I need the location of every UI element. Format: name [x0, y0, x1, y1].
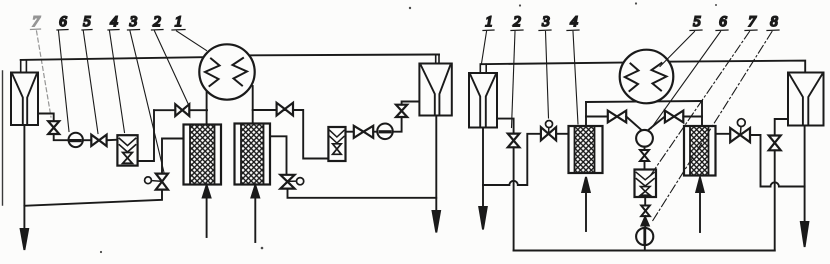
control valve CV4 (horizontal bowtie with pilot circle) — [730, 119, 750, 143]
wire top supply pipe (right of circle U2 to chamber B4) — [663, 61, 805, 73]
expansion valve box A2 — [328, 127, 345, 161]
svg-text:7: 7 — [32, 14, 41, 30]
wire lower header left segment — [586, 116, 608, 118]
valve V11 (vertical bowtie) — [640, 150, 649, 161]
wire CV1 drain return to chamber B1 drain — [24, 190, 162, 206]
label 7 (left diagram) with leader — [31, 14, 52, 117]
wire valve V4 to pump P2 — [373, 131, 377, 133]
svg-text:1: 1 — [485, 14, 493, 30]
label 7 (right diagram) with leader — [650, 14, 757, 176]
svg-text:4: 4 — [110, 14, 118, 30]
air washer chamber B1 (left funnel box) — [11, 60, 38, 125]
wire valve V2 to expansion box A1 — [107, 139, 118, 142]
heat exchanger W1 (hatched) — [184, 125, 222, 185]
wire valve V3 pipe to circle U1 left downpipe — [154, 109, 207, 111]
label 5 (left diagram) with leader — [82, 14, 98, 134]
svg-text:4: 4 — [570, 14, 578, 30]
valve V10 (horizontal bowtie, right of distributor) — [665, 111, 683, 123]
wire chamber B4 to valve V8 — [775, 119, 788, 136]
pump P2 (circle with bar) — [377, 124, 393, 140]
label 1 (right diagram) with leader — [482, 14, 495, 64]
svg-text:6: 6 — [719, 14, 727, 30]
heat exchanger W2 (hatched) — [235, 124, 271, 185]
valve V9 (horizontal bowtie, left of distributor) — [608, 111, 626, 123]
wire valve V12 to flow meter F1 — [644, 216, 646, 227]
svg-text:5: 5 — [83, 14, 91, 30]
valve V3 (horizontal bowtie) — [175, 104, 189, 116]
control valve CV2 (vertical bowtie with pilot circle) — [280, 175, 303, 189]
pump P1 (circle with bar) — [69, 133, 83, 147]
label 4 (left diagram) with leader — [108, 14, 125, 133]
heat exchanger W4 (hatched) — [684, 126, 716, 176]
duct edge line (far left) — [2, 71, 4, 205]
svg-text:3: 3 — [541, 14, 550, 30]
valve V1 (vertical bowtie) — [48, 121, 59, 134]
valve V8 (vertical bowtie) — [769, 136, 781, 151]
wire circle U1 left downpipe to heat exchanger W1 — [206, 91, 208, 125]
wire valve V8 riser to bottom pipe — [774, 150, 776, 250]
label 3 (left diagram) with leader — [128, 14, 165, 173]
label 2 (right diagram) with leader — [511, 14, 523, 128]
wire top supply pipe (left of circle U2) — [481, 62, 631, 64]
wire top supply pipe (left of heat-exchanger circle U1) — [21, 57, 210, 60]
valve V6 (vertical bowtie) — [396, 105, 407, 117]
wire lower header right segment — [683, 116, 702, 118]
wire valve V7 riser to recirculation bottom pipe — [513, 147, 515, 250]
valve V5 (horizontal bowtie) — [277, 103, 293, 116]
label 1 (left diagram) with leader — [172, 14, 207, 51]
air flow arrow into W1 — [203, 185, 211, 237]
wire box A1 outlet riser to valve V3 — [138, 110, 154, 161]
wire valve V5 pipe from right downpipe to box A2 — [253, 110, 329, 159]
label 6 (right diagram) with leader — [651, 14, 728, 129]
svg-text:2: 2 — [513, 14, 521, 30]
air flow arrow into W4 — [696, 178, 704, 233]
heat-exchanger circle U1 with zigzag coils — [199, 44, 254, 99]
control valve CV3 (horizontal bowtie with pilot circle) — [541, 121, 556, 141]
wire distributor V-branch right — [648, 117, 665, 131]
wire distributor V-branch left — [626, 117, 641, 130]
wire flow meter F1 to bottom pipe — [644, 245, 646, 250]
condensate drain arrow (left chamber B1) — [21, 125, 29, 250]
wire upper header pipe behind circle U2 — [586, 101, 702, 102]
control valve CV1 (vertical bowtie with pilot circle) — [145, 174, 168, 190]
wire chamber B3 outlet to valve V7 — [497, 119, 514, 134]
wire CV2 drain return to chamber B2 drain — [288, 189, 437, 198]
distributor circle N1 — [636, 130, 653, 147]
wire distributor to valve V11 — [644, 147, 646, 150]
wire control valve CV1 stem to W1 — [162, 139, 184, 174]
valve V7 (vertical bowtie) — [508, 134, 520, 148]
svg-text:1: 1 — [175, 14, 183, 30]
wire W3 top downpipe — [585, 102, 587, 126]
condensate drain arrow (right chamber B2) — [433, 116, 441, 233]
condensate drain arrow (chamber B4) — [801, 126, 809, 248]
heat exchanger W3 (hatched) — [569, 126, 603, 173]
heat-exchanger circle U2 with zigzag coils — [620, 50, 674, 104]
scan specks — [100, 2, 717, 253]
wire valve V11 to expansion box A3 — [644, 161, 646, 170]
wire W4 to control valve CV4 — [716, 133, 731, 135]
flow meter F1 (circle on riser) — [636, 228, 653, 245]
air washer chamber B2 (right funnel box) — [419, 55, 451, 116]
wire box A2 outlet to valve V4 — [346, 131, 354, 133]
svg-text:7: 7 — [748, 14, 757, 30]
air washer chamber B3 (left funnel box) — [469, 64, 497, 127]
wire circle U1 right downpipe to heat exchanger W2 — [252, 86, 254, 124]
wire pump P2 riser to valve V6 — [393, 117, 402, 132]
valve V2 (horizontal bowtie) — [91, 135, 106, 146]
air flow arrow into W3 — [582, 177, 590, 231]
wire chamber B1 outlet to valve V1 — [38, 114, 54, 122]
valve V12 (vertical bowtie) — [641, 206, 650, 217]
condensate drain arrow (chamber B3) — [479, 128, 487, 230]
wire box A3 to valve V12 — [644, 197, 646, 206]
air washer chamber B4 (right funnel box) — [788, 73, 824, 126]
svg-text:3: 3 — [129, 14, 138, 30]
wire W2 to control valve CV2 — [270, 136, 287, 175]
wire valve V1 to pump P1 — [54, 134, 69, 140]
label 4 (right diagram) with leader — [567, 14, 579, 124]
valve V4 (horizontal bowtie) — [354, 126, 373, 138]
label 5 (right diagram) with leader — [660, 14, 702, 67]
label 2 (left diagram) with leader — [152, 14, 189, 104]
wire CV4 return to chamber B4 drain (with hop) — [750, 135, 805, 187]
svg-text:6: 6 — [59, 14, 67, 30]
wire top supply pipe (right of circle U1 to chamber B2) — [245, 54, 439, 57]
wire valve V6 to chamber B2 — [402, 102, 420, 105]
svg-text:8: 8 — [770, 14, 778, 30]
expansion valve box A3 — [635, 170, 657, 198]
svg-text:5: 5 — [693, 14, 701, 30]
recirculation bottom pipe — [514, 250, 775, 252]
wire pump P1 to valve V2 — [83, 139, 91, 141]
wire valve CV3 to heat exchanger W3 — [556, 133, 568, 135]
label 6 (left diagram) with leader — [57, 14, 69, 132]
label 3 (right diagram) with leader — [539, 14, 551, 118]
wire return from B3 drain to valve CV3 (with hop) — [483, 134, 541, 185]
svg-text:2: 2 — [153, 14, 161, 30]
expansion valve box A1 — [117, 135, 137, 165]
wire W4 top downpipe — [701, 101, 703, 126]
flow arrow up into valve V12 — [641, 217, 648, 226]
air flow arrow into W2 — [251, 185, 259, 242]
label 8 (right diagram) with leader — [653, 14, 780, 221]
